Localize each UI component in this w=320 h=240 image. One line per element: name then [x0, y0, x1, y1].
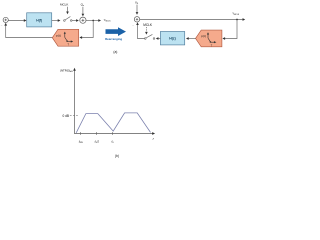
svg-text:fS: fS: [111, 139, 114, 144]
svg-text:H(f): H(f): [36, 18, 42, 22]
tick fS/2: [96, 132, 98, 135]
filter H(z) (right): [160, 32, 184, 45]
tick fS: [112, 132, 114, 135]
svg-text:YMCLK: YMCLK: [232, 12, 240, 17]
tick fBW: [80, 132, 82, 135]
wire DAC to H(z) (right, leftward): [186, 37, 196, 40]
summing junction S1: [3, 17, 8, 22]
svg-text:MCLK: MCLK: [143, 23, 153, 27]
svg-text:H(z): H(z): [169, 37, 175, 41]
NTF curve: [76, 113, 150, 133]
feedback wire output to DAC (left): [79, 21, 93, 39]
Qe label and arrow: [81, 3, 85, 17]
input arrow Xs to S2: [136, 5, 139, 15]
svg-text:p(t): p(t): [201, 34, 206, 38]
svg-text:Qe: Qe: [81, 3, 85, 8]
graph y-axis: [73, 68, 76, 134]
svg-text:−: −: [132, 24, 134, 28]
DAC p(t) (right): [196, 30, 222, 47]
wire H(f) to sampler: [52, 19, 61, 22]
rearranging big arrow: [106, 27, 127, 36]
wire H(z) to sampler (right, leftward): [156, 37, 161, 40]
svg-text:Rearranging: Rearranging: [105, 37, 122, 41]
svg-text:YMCLK: YMCLK: [104, 18, 112, 23]
feedback wire output down to DAC (right): [222, 20, 237, 40]
wire S1 to H(f): [8, 19, 26, 22]
svg-text:fS/2: fS/2: [95, 139, 100, 144]
top wire S2 to output: [140, 18, 246, 21]
MCLK label (right) with dashed arrow: [143, 23, 153, 35]
svg-text:|NTF(f)|dB: |NTF(f)|dB: [60, 68, 73, 73]
svg-text:p(t): p(t): [56, 33, 61, 37]
0 dB dashed line: [70, 115, 79, 117]
DAC p(t) (left): [52, 29, 78, 46]
summing junction S2: [134, 17, 139, 22]
svg-text:MCLK: MCLK: [60, 3, 68, 7]
wire quantizer to output with junction: [86, 19, 101, 22]
wire sampler to S2 (right): [136, 22, 144, 38]
quantizer summing node Qe: [80, 17, 86, 23]
loop filter H(f): [27, 13, 52, 27]
svg-text:(b): (b): [115, 154, 119, 158]
graph x-axis: [75, 132, 156, 135]
wire sampler to quantizer: [72, 19, 79, 22]
svg-text:(a): (a): [113, 50, 117, 54]
sampler switch MCLK (left): [64, 17, 72, 22]
svg-text:XS: XS: [135, 0, 139, 5]
svg-text:fBW: fBW: [79, 139, 83, 144]
svg-text:−: −: [1, 23, 3, 27]
svg-text:f: f: [153, 137, 155, 141]
MCLK label (left): [60, 3, 69, 15]
sampler switch MCLK (right): [145, 34, 155, 39]
feedback wire DAC to S1: [4, 23, 52, 38]
svg-text:0 dB: 0 dB: [62, 114, 69, 118]
